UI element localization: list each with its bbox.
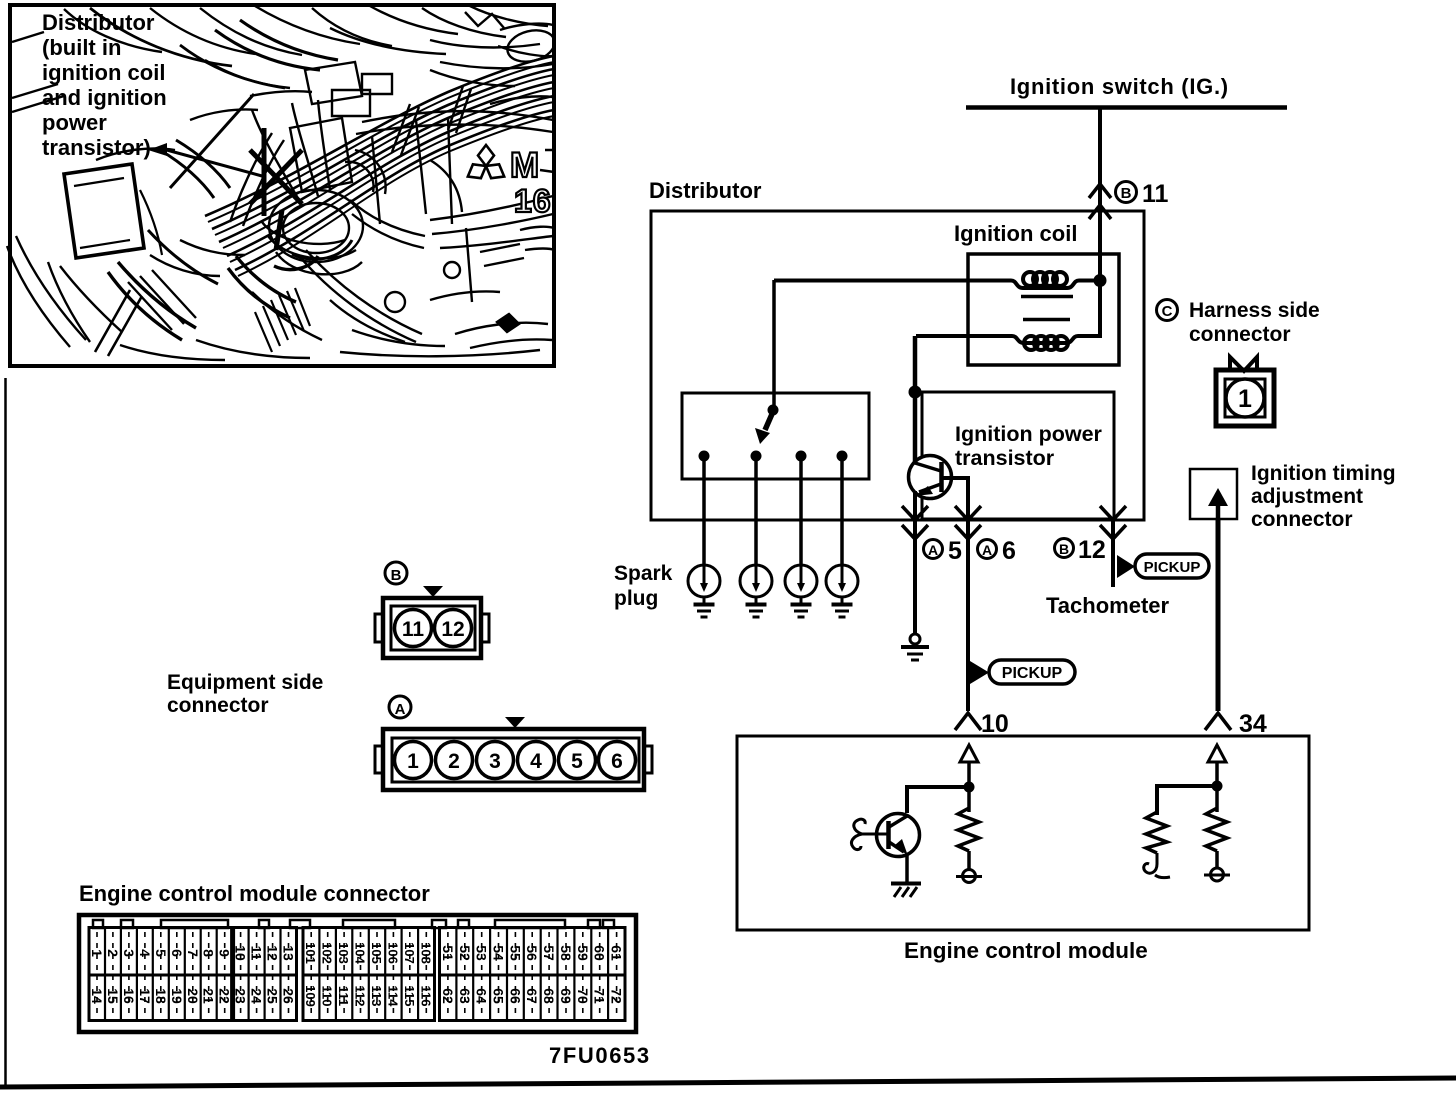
svg-text:Distributor: Distributor <box>649 178 762 203</box>
junction dot pin34 branch <box>1212 781 1223 792</box>
svg-text:2: 2 <box>448 750 460 773</box>
svg-text:21: 21 <box>201 988 217 1004</box>
svg-text:54: 54 <box>491 945 507 961</box>
svg-text:10: 10 <box>981 710 1009 738</box>
svg-text:60: 60 <box>592 945 608 961</box>
svg-text:58: 58 <box>558 945 574 961</box>
label: Ignition timing adjustment connector <box>1251 462 1396 531</box>
svg-text:68: 68 <box>541 988 557 1004</box>
svg-text:72: 72 <box>609 988 625 1004</box>
photo leader arrow <box>148 94 262 188</box>
svg-text:PICKUP: PICKUP <box>1144 559 1201 576</box>
svg-text:34: 34 <box>1239 710 1267 738</box>
svg-text:7FU0653: 7FU0653 <box>549 1043 651 1068</box>
svg-text:7: 7 <box>185 949 201 957</box>
photo label text <box>42 10 167 160</box>
resistor R3 (on pin34) <box>1206 808 1227 851</box>
svg-text:C: C <box>1162 303 1173 320</box>
svg-text:3: 3 <box>489 750 501 773</box>
svg-text:B: B <box>1059 541 1069 557</box>
svg-text:63: 63 <box>457 988 473 1004</box>
svg-text:57: 57 <box>541 945 557 961</box>
svg-text:61: 61 <box>609 945 625 961</box>
svg-text:55: 55 <box>507 945 523 961</box>
svg-text:12: 12 <box>265 945 281 961</box>
svg-text:15: 15 <box>105 988 121 1004</box>
connector chevrons at B11 <box>1089 184 1111 219</box>
svg-text:9: 9 <box>217 949 233 957</box>
svg-text:PICKUP: PICKUP <box>1002 665 1063 682</box>
harness side connector symbol <box>1216 357 1274 426</box>
label: Ignition power transistor <box>955 422 1103 470</box>
svg-text:22: 22 <box>217 988 233 1004</box>
engine control module box <box>737 736 1309 930</box>
rotor arm with arrowhead <box>765 414 772 430</box>
svg-text:107: 107 <box>402 942 417 964</box>
svg-text:23: 23 <box>233 988 249 1004</box>
photo: engine bay illustration frame <box>10 5 554 366</box>
ECM connector top tabs <box>93 920 614 928</box>
ECM pin34 input triangle <box>1208 745 1226 762</box>
svg-text:Engine control module connecto: Engine control module connector <box>79 881 430 906</box>
svg-text:17: 17 <box>137 988 153 1004</box>
svg-text:53: 53 <box>474 945 490 961</box>
svg-text:101: 101 <box>303 942 318 964</box>
ECM connector pin grid <box>89 928 625 1021</box>
chevron into ECM pin 10 <box>955 713 981 730</box>
svg-text:14: 14 <box>89 988 105 1004</box>
label A5 <box>924 537 963 565</box>
svg-text:18: 18 <box>153 988 169 1004</box>
junction dot pin10 branch <box>964 782 975 793</box>
svg-text:A: A <box>928 542 938 558</box>
wire to internal terminal <box>967 851 971 869</box>
connector chevrons A5 <box>902 506 928 539</box>
resistor R1 (pull-up on pin10) <box>958 808 979 851</box>
connector B body <box>375 598 489 658</box>
transistor Q1 (ignition power transistor) <box>909 456 952 499</box>
pickup flag on B12 wire <box>1117 554 1209 578</box>
svg-text:112: 112 <box>353 986 368 1007</box>
cap contact dots <box>699 451 710 462</box>
svg-text:19: 19 <box>169 988 185 1004</box>
svg-text:71: 71 <box>592 988 608 1004</box>
svg-text:1: 1 <box>89 949 105 957</box>
svg-text:25: 25 <box>265 988 281 1004</box>
svg-text:56: 56 <box>524 945 540 961</box>
ECM connector pin numbers <box>89 932 625 1017</box>
svg-text:adjustment: adjustment <box>1251 485 1363 508</box>
wire: transistor emitter down through A5 to ground <box>913 491 917 634</box>
svg-text:plug: plug <box>614 587 658 610</box>
svg-text:B: B <box>1121 185 1132 202</box>
wire to internal terminal <box>1215 851 1219 868</box>
junction dot on transistor box corner <box>909 386 922 399</box>
svg-text:connector: connector <box>1189 323 1291 346</box>
internal supply terminal under R1 <box>963 870 976 883</box>
svg-text:11: 11 <box>249 946 265 961</box>
svg-text:16: 16 <box>514 183 552 219</box>
distributor box <box>651 211 1144 520</box>
wire: primary to rotor <box>772 280 776 406</box>
ECM connector outer shell <box>79 915 636 1032</box>
svg-text:114: 114 <box>385 986 400 1008</box>
connector A pins 1-6 <box>395 742 432 779</box>
svg-text:1: 1 <box>407 750 419 773</box>
svg-text:103: 103 <box>336 942 351 964</box>
wire: timing connector to ECM pin 34 <box>1216 519 1221 711</box>
svg-text:3: 3 <box>121 949 137 957</box>
wire pin10 branch <box>967 762 971 812</box>
svg-text:70: 70 <box>575 988 591 1004</box>
ground under A5 <box>901 634 929 660</box>
wire: coil secondary to transistor collector <box>913 336 918 463</box>
page bottom rule <box>0 1078 1456 1087</box>
svg-text:8: 8 <box>201 949 217 957</box>
label: Spark plug <box>614 562 673 610</box>
rotor contact dot <box>768 405 779 416</box>
ignition power transistor label box <box>922 392 1114 519</box>
svg-text:Ignition coil: Ignition coil <box>954 221 1077 246</box>
connector A pointer triangle <box>505 717 525 728</box>
label B12 <box>1055 536 1106 564</box>
svg-text:5: 5 <box>571 750 583 773</box>
svg-text:20: 20 <box>185 988 201 1004</box>
ignition switch bus line <box>966 105 1287 110</box>
svg-text:and ignition: and ignition <box>42 85 167 110</box>
wire: transistor base to A6 and ECM pin 10 <box>943 478 968 711</box>
svg-text:4: 4 <box>137 949 153 957</box>
svg-text:transistor: transistor <box>955 446 1055 470</box>
svg-text:6: 6 <box>611 750 623 773</box>
ignition coil box <box>968 254 1119 365</box>
svg-text:4: 4 <box>530 750 542 773</box>
wire junction to R2 <box>1157 786 1215 815</box>
svg-text:Tachometer: Tachometer <box>1046 593 1170 618</box>
svg-text:(built in: (built in <box>42 35 121 60</box>
svg-text:Spark: Spark <box>614 562 673 585</box>
svg-text:62: 62 <box>440 988 456 1004</box>
svg-text:51: 51 <box>440 945 456 961</box>
svg-text:12: 12 <box>1078 536 1106 564</box>
svg-text:13: 13 <box>281 945 297 961</box>
junction dot coil/ignition switch <box>1094 274 1107 287</box>
svg-text:ignition coil: ignition coil <box>42 60 165 85</box>
svg-text:6: 6 <box>169 949 185 957</box>
svg-text:111: 111 <box>336 986 351 1006</box>
R2 open-end hook <box>1144 853 1157 873</box>
svg-text:64: 64 <box>474 988 490 1004</box>
svg-text:Harness side: Harness side <box>1189 299 1320 322</box>
svg-text:Engine control module: Engine control module <box>904 938 1148 963</box>
svg-text:Equipment side: Equipment side <box>167 671 323 694</box>
svg-text:102: 102 <box>320 942 335 964</box>
connector A body <box>375 729 652 790</box>
photo Mitsubishi mark <box>464 145 508 183</box>
svg-text:A: A <box>982 542 992 558</box>
resistor R2 (left branch pin34) <box>1146 812 1167 853</box>
label: Equipment side connector <box>167 671 323 717</box>
svg-text:5: 5 <box>948 537 962 565</box>
svg-text:52: 52 <box>457 945 473 961</box>
svg-text:116: 116 <box>418 986 433 1007</box>
connector B pin 11 <box>395 610 432 647</box>
label B11 <box>1116 180 1169 208</box>
connector B pointer triangle <box>423 586 443 597</box>
svg-text:6: 6 <box>1002 537 1016 565</box>
pickup flag on pin10 wire <box>970 660 1075 684</box>
svg-text:1: 1 <box>1238 385 1252 413</box>
svg-text:Ignition power: Ignition power <box>955 422 1103 446</box>
svg-text:16: 16 <box>121 988 137 1004</box>
ignition timing adjustment connector box <box>1190 469 1237 519</box>
svg-text:11: 11 <box>402 618 425 641</box>
label B (equipment connector) <box>385 562 407 584</box>
svg-text:106: 106 <box>385 942 400 964</box>
internal supply terminal under R3 <box>1211 868 1224 881</box>
label A (equipment connector) <box>389 696 411 718</box>
svg-text:12: 12 <box>441 618 464 641</box>
chevron into ECM pin 34 <box>1205 713 1231 730</box>
wire pin34 branch <box>1215 762 1219 812</box>
svg-text:power: power <box>42 110 107 135</box>
svg-text:10: 10 <box>233 945 249 961</box>
wire Q2 emitter to ground <box>905 853 909 882</box>
svg-text:109: 109 <box>303 985 318 1007</box>
svg-text:66: 66 <box>507 988 523 1004</box>
spark plug wires <box>704 456 842 565</box>
svg-text:108: 108 <box>418 942 433 964</box>
svg-text:65: 65 <box>491 988 507 1004</box>
label A6 <box>978 537 1016 565</box>
svg-text:Distributor: Distributor <box>42 10 155 35</box>
svg-text:A: A <box>395 701 406 718</box>
svg-text:connector: connector <box>167 694 269 717</box>
svg-text:110: 110 <box>320 986 335 1007</box>
connector B pin 12 <box>435 610 472 647</box>
coil core lines <box>1021 297 1073 320</box>
svg-text:115: 115 <box>402 986 417 1007</box>
photo distributor body dark marks <box>250 128 302 250</box>
svg-text:105: 105 <box>369 942 384 964</box>
coil primary winding <box>774 272 1094 288</box>
svg-text:5: 5 <box>153 949 169 957</box>
svg-text:104: 104 <box>353 942 368 964</box>
svg-text:59: 59 <box>575 945 591 961</box>
svg-text:24: 24 <box>249 988 265 1004</box>
ECM pin10 input triangle <box>960 745 978 762</box>
svg-text:2: 2 <box>105 949 121 957</box>
svg-text:Ignition timing: Ignition timing <box>1251 462 1396 485</box>
label C Harness side connector <box>1157 299 1320 346</box>
chassis ground in ECM <box>891 884 921 898</box>
connector chevrons A6 <box>955 506 981 539</box>
arrow inside timing connector <box>1216 500 1221 519</box>
svg-text:B: B <box>391 567 402 584</box>
spark plugs <box>688 565 858 617</box>
svg-text:11: 11 <box>1142 180 1169 208</box>
svg-text:26: 26 <box>281 988 297 1004</box>
wire: ignition switch to coil junction <box>1098 107 1102 281</box>
transistor Q2 (ECM driver) <box>877 814 920 857</box>
svg-text:Ignition switch (IG.): Ignition switch (IG.) <box>1010 74 1229 99</box>
svg-text:113: 113 <box>369 986 384 1007</box>
photo engine line art <box>7 6 558 360</box>
distributor cap box <box>682 393 869 479</box>
svg-text:M: M <box>510 146 539 185</box>
wire stub B12 with chevrons <box>1111 519 1115 587</box>
page left border <box>4 378 7 1085</box>
Q2 base lead squiggle <box>854 819 888 834</box>
svg-text:connector: connector <box>1251 508 1353 531</box>
coil secondary winding <box>916 281 1100 350</box>
svg-text:transistor): transistor) <box>42 135 151 160</box>
svg-text:67: 67 <box>524 988 540 1004</box>
wire junction to Q2 collector <box>907 787 967 813</box>
svg-text:69: 69 <box>558 988 574 1004</box>
